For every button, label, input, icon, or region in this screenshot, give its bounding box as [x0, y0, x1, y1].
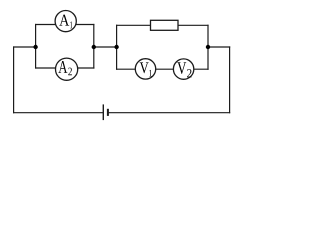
wire resistor branch [117, 24, 208, 26]
wire outer left vertical [13, 47, 15, 113]
battery cell [103, 104, 108, 120]
wire outer right vertical [229, 47, 231, 113]
wire left stub to node A [14, 46, 36, 48]
node A junction dot [33, 45, 37, 49]
wire A1 branch [36, 24, 94, 26]
wire voltmeter-box left rail [116, 25, 118, 69]
battery short plate [107, 109, 109, 116]
wire right stub from node D [208, 46, 230, 48]
voltmeter V2 [173, 59, 193, 79]
battery long plate [102, 104, 104, 120]
wire voltmeter-box right rail [207, 25, 209, 69]
ammeter A2 [56, 58, 78, 80]
node D junction dot [206, 45, 210, 49]
wire A2 branch [36, 67, 94, 69]
wire ammeter-box right rail [93, 25, 95, 69]
node C junction dot [114, 45, 118, 49]
wire connector node B to node C [94, 46, 117, 48]
wire ammeter-box left rail [35, 25, 37, 69]
node B junction dot [92, 45, 96, 49]
resistor R1 [151, 20, 179, 30]
wire bottom left (to battery) [14, 112, 103, 114]
wire bottom right (from battery) [109, 112, 230, 114]
voltmeter V1 [135, 59, 155, 79]
ammeter A1 [55, 11, 76, 32]
wire voltmeter branch [117, 68, 208, 70]
